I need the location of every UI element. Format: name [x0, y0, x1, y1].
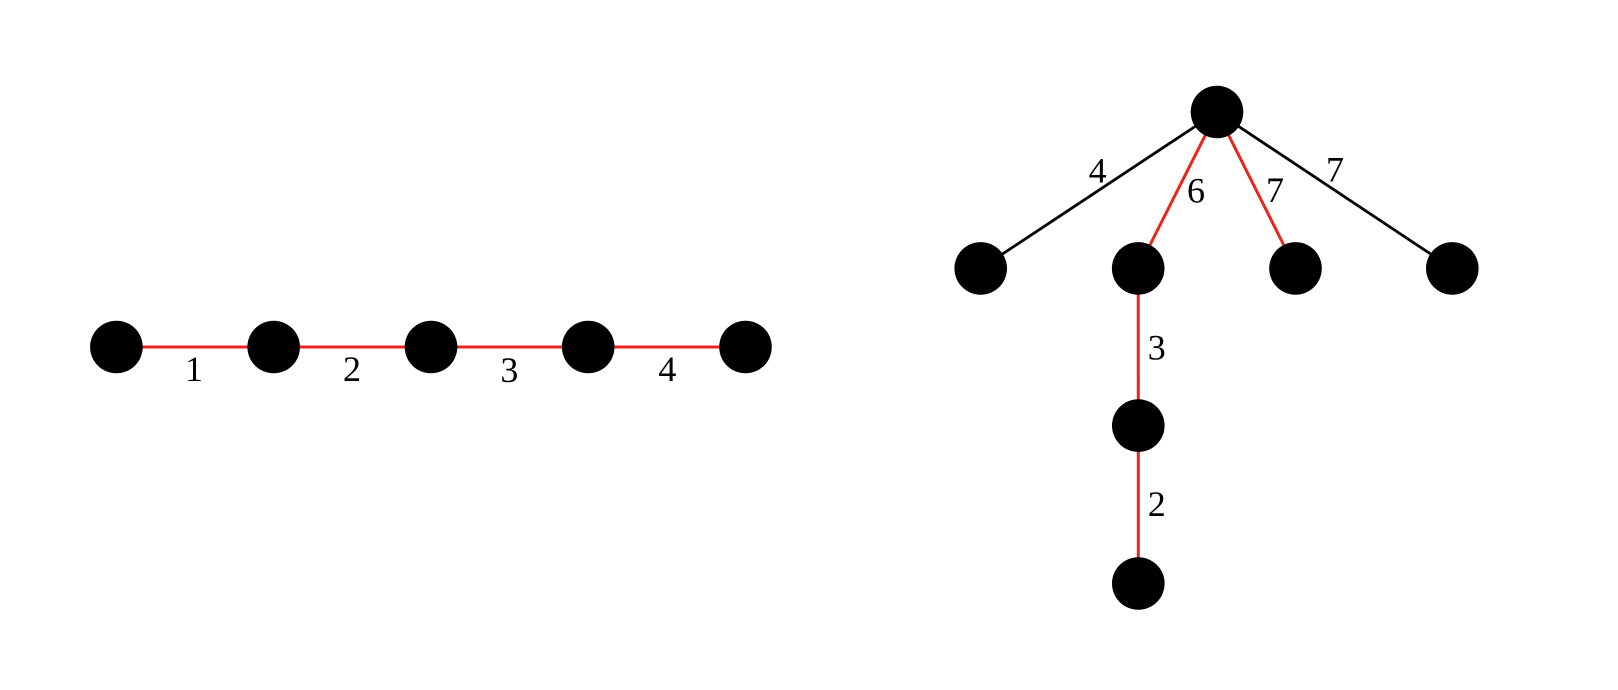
node a5	[719, 321, 772, 374]
svg-text:3: 3	[500, 350, 518, 390]
node a1	[90, 321, 143, 374]
svg-text:4: 4	[1089, 151, 1107, 191]
edge a4-a5 weight 4	[588, 346, 745, 349]
edge root-b3 weight 7	[1217, 112, 1296, 268]
edge b2-c1 weight 3	[1137, 268, 1140, 425]
node b1	[954, 242, 1007, 295]
svg-text:2: 2	[1148, 484, 1166, 524]
node c1	[1112, 399, 1165, 452]
svg-text:7: 7	[1266, 170, 1284, 210]
svg-text:1: 1	[185, 349, 203, 389]
svg-text:3: 3	[1148, 327, 1166, 367]
edge root-b1 weight 4	[981, 112, 1217, 268]
edge root-b4 weight 7	[1217, 112, 1452, 268]
edge a2-a3 weight 2	[274, 346, 431, 349]
node d1	[1112, 557, 1165, 610]
svg-text:6: 6	[1187, 171, 1205, 211]
node a2	[247, 321, 300, 374]
node a3	[405, 321, 458, 374]
node b2	[1112, 242, 1165, 295]
svg-text:4: 4	[658, 349, 676, 389]
node a4	[562, 321, 615, 374]
node root	[1191, 86, 1244, 139]
svg-text:2: 2	[343, 349, 361, 389]
svg-text:7: 7	[1326, 149, 1344, 189]
edge root-b2 weight 6	[1138, 112, 1217, 268]
node b4	[1426, 242, 1479, 295]
edge c1-d1 weight 2	[1137, 426, 1140, 584]
edge a3-a4 weight 3	[431, 346, 588, 349]
edge a1-a2 weight 1	[116, 346, 273, 349]
node b3	[1269, 242, 1322, 295]
